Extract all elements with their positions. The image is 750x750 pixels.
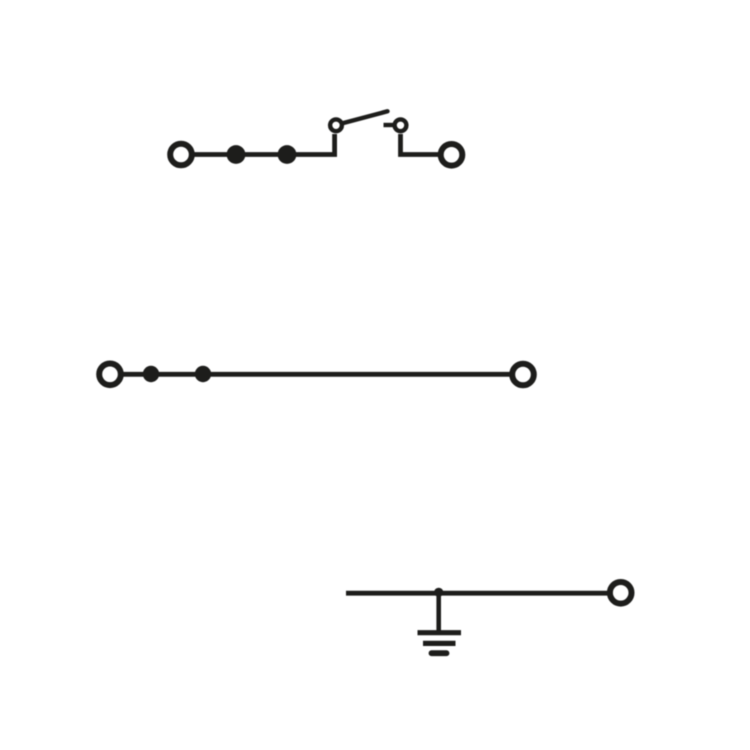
ground (PE earth symbol) (418, 633, 462, 654)
junction dot (ground tap) (434, 588, 443, 597)
terminal clamp (top deck, right) (441, 144, 463, 166)
terminal clamp (middle deck, left) (99, 364, 121, 386)
wire: middle deck feed-through bus (123, 372, 510, 377)
wire: ground deck bus (346, 591, 608, 596)
terminal clamp (top deck, left) (170, 144, 192, 166)
junction dot (top deck, first tap) (227, 145, 246, 164)
switch throw tick (384, 123, 394, 127)
disconnect switch pole contact (small circle) (330, 119, 342, 131)
wire: ground stem (436, 593, 441, 631)
junction dot (top deck, second tap) (278, 145, 297, 164)
wire: top deck left run rising to switch pole (194, 134, 335, 155)
terminal clamp (ground deck, right) (610, 582, 632, 604)
junction dot (middle deck, second tap) (195, 366, 211, 382)
disconnect switch throw contact (small circle) (395, 119, 407, 131)
terminal clamp (middle deck, right) (512, 364, 534, 386)
disconnect switch blade (open) (343, 111, 388, 123)
junction dot (middle deck, first tap) (143, 366, 159, 382)
wire: top deck right run down from switch throw (401, 134, 439, 155)
